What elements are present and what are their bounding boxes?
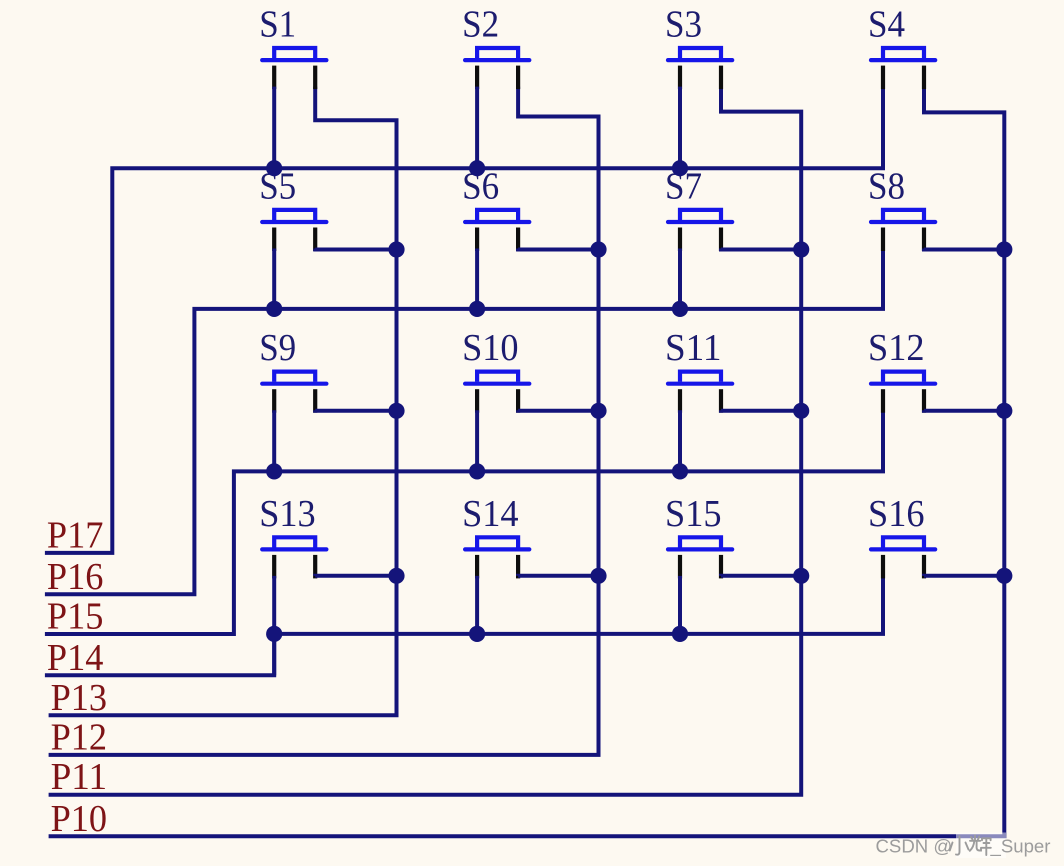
pushbutton switch S3 <box>665 4 732 90</box>
wire P14 riser to row 4 junction <box>272 634 276 675</box>
svg-text:P11: P11 <box>51 756 108 798</box>
pushbutton switch S13 <box>259 493 326 579</box>
junction row 1 col 1 <box>266 160 282 176</box>
wire S9 left pin to row 3 <box>272 410 276 471</box>
wire net P16: port underline, riser, row 2 horizontal, drop to S8 pin <box>45 249 883 595</box>
svg-text:P17: P17 <box>47 514 104 556</box>
wire S7 left pin to row 2 <box>678 249 682 309</box>
pushbutton switch S6 <box>462 166 529 252</box>
junction column 3 row 4 elbow <box>793 568 809 584</box>
pushbutton switch S15 <box>665 493 732 579</box>
junction column 2 row 4 elbow <box>590 568 606 584</box>
wire net P17: port underline, riser, row 1 horizontal, drop to S4 pin <box>45 87 883 553</box>
wire S10 left pin to row 3 <box>475 410 479 471</box>
pushbutton switch S4 <box>868 4 935 90</box>
junction row 4 col 1 <box>266 626 282 642</box>
svg-text:S4: S4 <box>868 4 905 46</box>
svg-text:S10: S10 <box>462 327 518 369</box>
svg-text:P10: P10 <box>51 798 108 840</box>
wire S5 right pin elbow to column 1 <box>315 249 396 250</box>
svg-text:S11: S11 <box>665 327 722 369</box>
svg-text:P14: P14 <box>47 637 104 679</box>
pushbutton switch S9 <box>259 327 326 413</box>
wire S10 right pin elbow to column 2 <box>518 408 598 413</box>
junction column 2 row 2 elbow <box>590 241 606 257</box>
svg-text:P16: P16 <box>47 556 104 598</box>
junction column 4 row 3 elbow <box>996 403 1012 419</box>
junction row 3 col 3 <box>672 463 688 479</box>
junction column 1 row 2 elbow <box>388 241 404 257</box>
pushbutton switch S5 <box>259 166 326 252</box>
junction row 2 col 1 <box>266 301 282 317</box>
svg-text:S2: S2 <box>462 4 499 46</box>
junction column 3 row 2 elbow <box>793 241 809 257</box>
svg-text:S9: S9 <box>259 327 296 369</box>
junction column 4 row 4 elbow <box>996 568 1012 584</box>
wire S13 right pin elbow to column 1 <box>315 574 396 578</box>
svg-text:CSDN @: CSDN @ <box>876 836 953 857</box>
pushbutton switch S2 <box>462 4 529 90</box>
svg-text:P12: P12 <box>51 716 108 758</box>
svg-text:S16: S16 <box>868 493 925 535</box>
svg-text:S12: S12 <box>868 327 925 369</box>
svg-text:S15: S15 <box>665 493 722 535</box>
wire S6 right pin elbow to column 2 <box>518 249 598 250</box>
pushbutton switch S12 <box>868 327 935 413</box>
wire S14 left pin to row 4 <box>475 576 479 634</box>
pushbutton switch S16 <box>868 493 935 579</box>
wire S15 right pin elbow to column 3 <box>721 574 801 578</box>
wire S7 right pin elbow to column 3 <box>721 249 801 250</box>
pushbutton switch S1 <box>259 4 326 90</box>
wire net P13: S1 right pin drop, column 1 vertical, port underline <box>49 87 397 716</box>
svg-text:S13: S13 <box>259 493 316 535</box>
junction row 3 col 2 <box>469 463 485 479</box>
svg-text:S1: S1 <box>259 4 296 46</box>
watermark CSDN @xiaohui_Super <box>876 833 1051 859</box>
wire net P12: S2 right pin drop, column 2 vertical, port underline <box>49 87 599 755</box>
wire net P10: S4 right pin drop, column 4 vertical, port underline <box>49 87 1005 837</box>
junction column 1 row 4 elbow <box>388 568 404 584</box>
pushbutton switch S8 <box>868 166 935 252</box>
svg-text:S14: S14 <box>462 493 518 535</box>
wire net P11: S3 right pin drop, column 3 vertical, port underline <box>49 87 802 795</box>
wire S8 right pin elbow to column 4 <box>924 249 1004 250</box>
svg-text:S3: S3 <box>665 4 702 46</box>
pushbutton switch S11 <box>665 327 732 413</box>
wire S1 left pin to row 1 <box>272 87 276 169</box>
wire net P15: port underline, riser, row 3 horizontal, drop to S12 pin <box>45 410 883 634</box>
wire S2 left pin to row 1 <box>475 87 479 169</box>
svg-text:_Super: _Super <box>990 836 1051 858</box>
wire S6 left pin to row 2 <box>475 249 479 309</box>
junction column 4 row 2 elbow <box>996 241 1012 257</box>
junction row 4 col 2 <box>469 626 485 642</box>
wire S11 left pin to row 3 <box>678 410 682 471</box>
wire net P14: port underline, riser, row 4 horizontal, drop to S16 pin <box>45 576 883 675</box>
junction column 3 row 3 elbow <box>793 403 809 419</box>
junction row 4 col 3 <box>672 626 688 642</box>
svg-text:S8: S8 <box>868 166 905 208</box>
junction column 2 row 3 elbow <box>590 403 606 419</box>
junction row 1 col 2 <box>469 160 485 176</box>
wire S16 right pin elbow to column 4 <box>924 574 1004 578</box>
pushbutton switch S7 <box>665 166 732 252</box>
svg-text:P15: P15 <box>47 596 104 638</box>
wire S5 left pin to row 2 <box>272 249 276 309</box>
junction row 3 col 1 <box>266 463 282 479</box>
wire S9 right pin elbow to column 1 <box>315 408 396 413</box>
svg-text:P13: P13 <box>51 677 108 719</box>
junction column 1 row 3 elbow <box>388 403 404 419</box>
pushbutton switch S14 <box>462 493 529 579</box>
wire S3 left pin to row 1 <box>678 87 682 169</box>
wire S11 right pin elbow to column 3 <box>721 408 801 413</box>
wire S14 right pin elbow to column 2 <box>518 574 598 578</box>
wire S13 left pin to row 4 <box>272 576 276 634</box>
pushbutton switch S10 <box>462 327 529 413</box>
junction row 2 col 3 <box>672 301 688 317</box>
wire S15 left pin to row 4 <box>678 576 682 634</box>
junction row 2 col 2 <box>469 301 485 317</box>
junction row 1 col 3 <box>672 160 688 176</box>
wire S12 right pin elbow to column 4 <box>924 408 1004 413</box>
